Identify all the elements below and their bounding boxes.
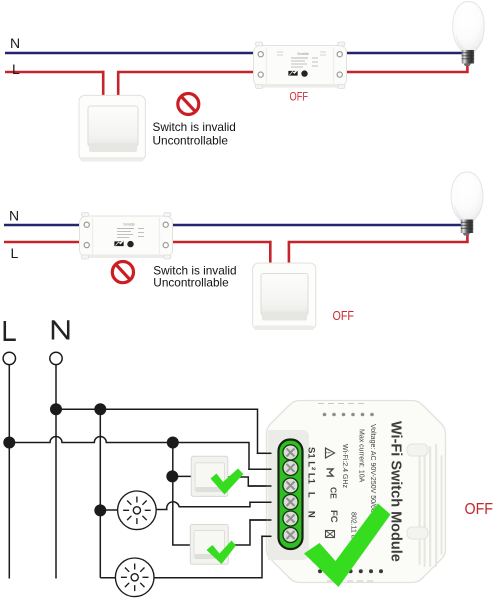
svg-text:Wi-Fi Switch Module: Wi-Fi Switch Module (388, 421, 404, 562)
lamp E2 (115, 558, 154, 597)
svg-text:Uncontrollable: Uncontrollable (153, 276, 229, 290)
wire L bus with humps (9, 437, 272, 470)
node N junction (50, 403, 62, 415)
wire stubs into terminals (248, 453, 272, 536)
svg-text:L: L (11, 245, 19, 261)
terminal circle L (3, 352, 15, 364)
terminal labels S1 L2 L1 L N (306, 447, 317, 518)
svg-text:Max current: 10A: Max current: 10A (358, 429, 365, 483)
svg-text:CE: CE (329, 487, 339, 499)
terminal bay recess (268, 430, 309, 560)
svg-text:Wi-Fi:2.4 GHz: Wi-Fi:2.4 GHz (341, 444, 348, 488)
svg-text:Smart Life: Smart Life (297, 52, 309, 56)
svg-text:S1 L² L1 L N: S1 L² L1 L N (306, 447, 317, 518)
wire N2 neutral (blue) (4, 224, 462, 227)
wire N vertical (55, 365, 57, 579)
wire switch drop 1b (117, 71, 120, 96)
wire to lamp1 (100, 509, 117, 511)
wire L1 live (red) right segment (118, 71, 468, 74)
wire switch drop 2a (269, 241, 272, 264)
bulb B1 (453, 2, 485, 67)
prohibition sign (section 1) (178, 94, 199, 115)
switch SW2 wall switch (253, 263, 316, 330)
wire switch2 output (228, 520, 272, 545)
svg-text:!: ! (324, 452, 330, 454)
svg-text:OFF: OFF (465, 501, 494, 518)
label L (schematic) (5, 321, 16, 340)
module M2 smart breaker (section 2) (80, 213, 173, 260)
prohibition sign (section 2) (112, 262, 133, 283)
module side slots (407, 444, 428, 456)
wire N branch vertical (99, 409, 101, 578)
svg-text:L: L (12, 61, 20, 77)
wire L1 live (red) left segment (5, 71, 105, 74)
node lamp1 tap (94, 504, 106, 516)
wire switch drop 2b (288, 241, 291, 264)
node switch1 tap (166, 470, 178, 482)
svg-text:Uncontrollable: Uncontrollable (153, 133, 229, 147)
svg-text:N: N (9, 208, 19, 224)
svg-text:Smart Life: Smart Life (123, 222, 135, 226)
node switch feed junction (167, 437, 179, 449)
wire lamp2 bottom (100, 536, 272, 578)
wire bulb2 riser (466, 232, 469, 243)
svg-text:OFF: OFF (290, 92, 309, 104)
module top vents (323, 413, 374, 417)
bulb B2 (451, 172, 483, 236)
wire switch feed vertical (173, 443, 190, 546)
node L junction (3, 437, 15, 449)
switch K2 (schematic) (190, 525, 228, 565)
label N (schematic) (53, 320, 68, 339)
terminal block TB1 (279, 440, 303, 550)
wire L2 live (red) right segment (289, 241, 469, 244)
wire L vertical (8, 365, 10, 579)
svg-text:N: N (10, 35, 20, 51)
terminal circle N (50, 352, 62, 364)
svg-text:Switch is invalid: Switch is invalid (153, 120, 236, 134)
svg-text:Voltage: AC 90V-250V 50/60Hz: Voltage: AC 90V-250V 50/60Hz (369, 424, 376, 522)
check mark switch1 (211, 469, 244, 495)
module bottom vents (318, 569, 383, 573)
module M1 smart breaker (section 1) (254, 42, 347, 89)
svg-text:FC: FC (328, 510, 339, 523)
wire switch1 output (228, 477, 272, 486)
wire N bus to module (56, 409, 272, 453)
wire N1 neutral (blue) (5, 52, 462, 55)
switch SW1 wall switch (79, 95, 145, 161)
node N branch (94, 403, 106, 415)
svg-text:OFF: OFF (333, 309, 355, 323)
module U1 wifi switch module body (267, 401, 446, 583)
wire to switch1 (172, 475, 191, 477)
big check mark (304, 504, 391, 588)
wire bulb1 riser (466, 62, 469, 73)
lamp E1 (118, 491, 157, 530)
check mark switch2 (207, 541, 237, 565)
wire lamp1 output with hump (156, 502, 272, 510)
wire L2 live (red) left segment (4, 241, 272, 244)
wire switch drop 1a (102, 71, 105, 96)
certification icons (324, 448, 339, 538)
switch K1 (schematic) (191, 456, 228, 496)
